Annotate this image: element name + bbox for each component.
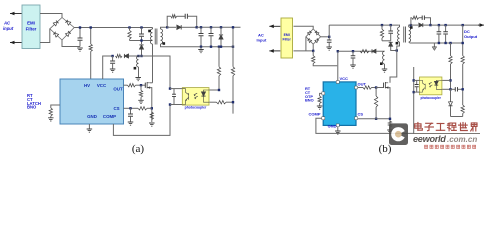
wire output rail (b) xyxy=(431,24,480,26)
node DC output label (b) xyxy=(464,29,478,39)
resistor VCC R27 (b) xyxy=(360,50,369,53)
capacitor opto filter C27 (b) xyxy=(415,80,419,92)
node output junction (b) xyxy=(429,24,431,26)
resistor gate pulldown R10 (a) xyxy=(138,85,144,103)
wire secondary bottom rail (b) xyxy=(409,42,463,43)
EMI filter block (b) xyxy=(281,18,293,58)
wire secondary top (a) xyxy=(161,27,168,29)
svg-text:Filter: Filter xyxy=(26,27,37,32)
node caption (b) xyxy=(379,143,392,155)
node CS source junction (b) xyxy=(389,118,391,120)
bridge rectifier BR2 (b) xyxy=(306,29,321,44)
diode VCC D24 (b) xyxy=(372,49,376,53)
node opto emitter junction (a) xyxy=(169,103,171,105)
wire secondary bottom rail (a) xyxy=(161,44,234,47)
wire COMP feedback (b) xyxy=(316,118,414,133)
node output junction (a) xyxy=(196,26,198,28)
node eeworld logo underline xyxy=(413,132,480,134)
node pin OUT (b) xyxy=(355,82,367,89)
wire snubber bottom rail (a) xyxy=(130,40,153,42)
svg-text:Filter: Filter xyxy=(283,38,292,42)
wire feedback bottom (b) xyxy=(451,116,463,118)
transistor MOSFET Q21 (b) xyxy=(384,82,389,89)
svg-text:CS: CS xyxy=(358,111,364,116)
resistor output snubber R3 (a) xyxy=(171,15,177,18)
wire output rail (a) xyxy=(197,26,241,28)
wire bridge bottom drop (b) xyxy=(312,44,314,51)
wire VCC riser (b) xyxy=(337,51,339,80)
node pin VCC (b) xyxy=(336,76,348,83)
ground secondary (a) xyxy=(198,47,204,53)
svg-text:GND: GND xyxy=(328,124,337,129)
svg-text:EMI: EMI xyxy=(27,21,35,26)
capacitor feedback C26 (b) xyxy=(451,87,464,91)
svg-text:Output: Output xyxy=(464,34,478,39)
resistor gate R29 (b) xyxy=(358,86,377,89)
node eeworld logo icon xyxy=(389,123,408,145)
svg-text:VCC: VCC xyxy=(340,76,349,81)
wire AC line 1 (b) xyxy=(269,25,280,29)
capacitor output C24 (b) xyxy=(437,24,442,44)
transformer T1 (a) xyxy=(148,28,165,45)
svg-text:Input: Input xyxy=(257,38,267,43)
wire VCC riser (a) xyxy=(103,56,113,79)
node AC input label (a) xyxy=(3,21,14,32)
wire CS line (a) xyxy=(124,107,139,109)
node bridge bottom junction (b) xyxy=(312,50,314,52)
node bulk junction (b) xyxy=(328,36,330,38)
diode zener D3 (a) xyxy=(219,26,223,48)
bridge rectifier BR1 (a) xyxy=(50,18,74,41)
resistor startup R21 (b) xyxy=(312,51,338,66)
ground IC GND pin (b) xyxy=(335,127,341,135)
node pin labels RT CT LATCH BNO (a) xyxy=(27,93,41,109)
svg-text:eeworld: eeworld xyxy=(413,134,446,144)
capacitor output snubber C3 (a) xyxy=(185,14,187,19)
capacitor snubber C2 (a) xyxy=(139,26,144,40)
resistor RT R28 (b) xyxy=(317,93,323,109)
wire opto left stubs (a) xyxy=(170,89,182,105)
wire opto left rail (b) xyxy=(413,67,415,133)
node caption (a) xyxy=(132,143,145,155)
svg-text:COMP: COMP xyxy=(103,114,116,119)
capacitor output C4 (a) xyxy=(199,26,204,48)
wire CS line (b) xyxy=(358,118,390,120)
capacitor output C5 (a) xyxy=(209,26,214,48)
photocoupler U22 (b) xyxy=(420,77,442,95)
wire gate stub (b) xyxy=(376,87,384,89)
resistor feedback R5 (a) xyxy=(231,26,234,114)
diode output D2 (a) xyxy=(167,25,197,29)
diode clamp D1 (a) xyxy=(139,39,143,57)
node VCC cap junction (b) xyxy=(352,50,354,52)
node gate junction (b) xyxy=(375,86,377,88)
capacitor CS C7 (a) xyxy=(128,108,134,125)
wire source line (b) xyxy=(388,88,390,122)
wire COMP feedback (a) xyxy=(113,105,170,136)
svg-text:BNO: BNO xyxy=(27,105,37,110)
node secondary junction (a) xyxy=(166,26,168,28)
diode output D22 (b) xyxy=(411,23,431,27)
node drain junction (b) xyxy=(396,49,398,51)
resistor snubber R2 (a) xyxy=(128,26,131,40)
inductor aux winding L21 (b) xyxy=(380,51,387,72)
node pin COMP (b) xyxy=(309,111,325,119)
resistor output snubber R23 (b) xyxy=(412,16,419,19)
wire AC line 2 (b) xyxy=(269,49,280,53)
ground IC GND pin (a) xyxy=(87,124,93,132)
wire RC loop (a) xyxy=(167,16,197,27)
svg-text:.com.cn: .com.cn xyxy=(447,135,477,144)
resistor gate R9 (a) xyxy=(124,84,146,87)
node eeworld logo slogan xyxy=(425,145,476,148)
capacitor opto filter C8 (a) xyxy=(172,89,176,105)
node pin GND (b) xyxy=(328,124,340,129)
capacitor output C25 (b) xyxy=(443,24,448,44)
svg-text:CS: CS xyxy=(113,106,119,111)
svg-text:VCC: VCC xyxy=(97,83,107,88)
IC controller U21 (b) xyxy=(323,82,356,126)
wire EMI top to bridge (a) xyxy=(40,14,62,18)
wire drain line (a) xyxy=(152,44,154,83)
wire AC line 1 (a) xyxy=(10,12,22,16)
wire source line (a) xyxy=(150,88,152,122)
svg-text:HV: HV xyxy=(84,83,90,88)
wire EMI top to bridge (b) xyxy=(294,26,314,29)
svg-text:BNO: BNO xyxy=(305,98,314,103)
node pin left RT (b) xyxy=(322,92,325,95)
resistor sense R31 (b) xyxy=(387,121,393,133)
wire snubber bottom (b) xyxy=(382,40,391,42)
wire drain stub (a) xyxy=(150,44,153,83)
wire opto right stubs (b) xyxy=(442,80,451,89)
transistor MOSFET Q1 (a) xyxy=(145,82,150,89)
resistor divider R25 (b) xyxy=(461,24,464,105)
wire opto cathode line (a) xyxy=(209,101,217,103)
wire VCC to opto rail (a) xyxy=(139,56,171,89)
node gate junction (a) xyxy=(140,84,142,86)
svg-text:EMI: EMI xyxy=(284,33,290,37)
node aux junction (a) xyxy=(137,55,139,57)
resistor VCC R8 (a) xyxy=(116,54,123,57)
resistor snubber R22 (b) xyxy=(380,24,383,41)
node AC input label (b) xyxy=(257,33,267,43)
resistor divider R24 (b) xyxy=(449,42,452,102)
capacitor bulk C21 (b) xyxy=(326,37,332,50)
svg-text:(a): (a) xyxy=(132,143,145,155)
node DC output arrow (b) xyxy=(478,23,484,27)
wire DC rail (a) xyxy=(74,27,152,29)
diode zener D23 (b) xyxy=(449,89,453,116)
wire EMI bottom to bridge (a) xyxy=(40,29,50,43)
wire bridge left riser (b) xyxy=(305,37,307,51)
node eeworld logo text line 1 xyxy=(415,123,477,131)
capacitor bulk C1 (a) xyxy=(78,26,83,46)
capacitor VCC C6 (a) xyxy=(110,56,115,69)
wire AC line 2 (a) xyxy=(10,41,22,45)
node photocoupler label (b) xyxy=(421,96,442,100)
wire bridge bottom to cap (a) xyxy=(62,40,80,47)
EMI filter block (a) xyxy=(22,5,40,49)
resistor RT R7 (a) xyxy=(48,105,60,121)
svg-text:photocoupler: photocoupler xyxy=(185,106,207,110)
wire RC loop (b) xyxy=(411,18,431,25)
node VCC junction (a) xyxy=(111,55,113,57)
wire bridge out (b) xyxy=(321,36,330,38)
resistor feedback R26 (b) xyxy=(461,105,464,117)
svg-text:GND: GND xyxy=(87,114,97,119)
resistor bias R6 (a) xyxy=(217,101,235,104)
resistor feedback R4 (a) xyxy=(217,46,220,91)
capacitor snubber C22 (b) xyxy=(388,24,393,41)
node pin CS (b) xyxy=(355,111,364,119)
svg-text:input: input xyxy=(3,26,14,31)
ground secondary triangle (b) xyxy=(432,43,437,50)
svg-text:AC: AC xyxy=(3,21,11,26)
inductor aux winding L1 (a) xyxy=(134,56,139,77)
wire opto anode stub (a) xyxy=(209,89,220,91)
ground aux winding (a) xyxy=(135,78,141,81)
node opto cathode junction (b) xyxy=(449,88,451,90)
node CS source junction (a) xyxy=(151,107,153,109)
node secondary junction (b) xyxy=(410,24,412,26)
resistor sense R11 (a) xyxy=(149,112,155,126)
resistor CS filter R12 (a) xyxy=(138,107,152,110)
wire EMI bottom wire (b) xyxy=(294,50,314,52)
transformer T2 (b) xyxy=(396,25,413,44)
svg-text:COMP: COMP xyxy=(309,111,321,116)
node opto anode junction (b) xyxy=(449,79,451,81)
node opto collector junction (a) xyxy=(169,87,171,89)
wire DC rail (b) xyxy=(329,24,399,26)
resistor gate pulldown R30 (b) xyxy=(374,88,377,121)
svg-text:OUT: OUT xyxy=(113,86,123,91)
capacitor output snubber C23 (b) xyxy=(422,16,424,20)
IC controller U1 (a) xyxy=(60,79,124,124)
svg-text:(b): (b) xyxy=(379,143,392,155)
diode clamp D21 (b) xyxy=(389,42,397,50)
wire secondary top (b) xyxy=(409,25,411,27)
svg-text:OUT: OUT xyxy=(358,82,367,87)
node VCC junction (b) xyxy=(337,50,339,52)
node pin labels RT CT OTP BNO (b) xyxy=(305,86,314,102)
node eeworld logo text line 2 xyxy=(413,134,477,144)
node photocoupler label (a) xyxy=(185,106,207,110)
node opto left bottom junction (b) xyxy=(413,91,415,93)
photocoupler U2 (a) xyxy=(182,88,209,106)
wire VCC aux line (b) xyxy=(338,50,385,52)
node opto left top junction (b) xyxy=(413,79,415,81)
wire drain line (b) xyxy=(390,51,397,83)
diode VCC D4 (a) xyxy=(124,54,138,58)
ground VCC cap (a) xyxy=(110,69,116,72)
wire rail riser (b) xyxy=(328,25,330,37)
ground bulk cap (a) xyxy=(77,48,83,51)
wire primary bottom (b) xyxy=(397,42,400,51)
resistor HV startup R1 (a) xyxy=(89,26,92,79)
wire opto left stubs (b) xyxy=(414,80,420,92)
capacitor VCC C28 (b) xyxy=(350,51,356,68)
node CS cap junction (a) xyxy=(129,107,131,109)
svg-text:photocoupler: photocoupler xyxy=(421,96,442,100)
